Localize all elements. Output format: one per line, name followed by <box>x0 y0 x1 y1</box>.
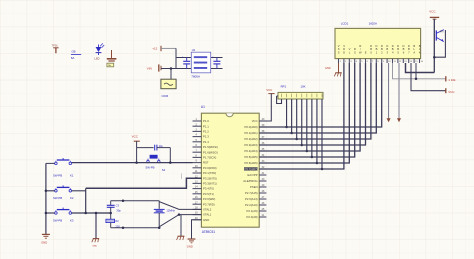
svg-text:P0.2(AD2): P0.2(AD2) <box>245 137 258 141</box>
junction crystal bottom b <box>158 226 161 229</box>
svg-text:PN: PN <box>440 31 444 34</box>
svg-text:P2.1(A9): P2.1(A9) <box>247 209 258 213</box>
junction rail K3 <box>45 212 48 215</box>
junction crystal bottom a <box>122 226 125 229</box>
test point TP1 <box>52 44 59 54</box>
svg-text:10K: 10K <box>300 85 305 89</box>
pin 11 U1 <box>193 170 217 175</box>
switch K3 <box>53 208 74 223</box>
wire to fuse box <box>170 69 172 80</box>
svg-text:LED: LED <box>95 56 100 60</box>
pin 16 U1 <box>193 196 216 201</box>
junction RST right <box>169 161 172 164</box>
wire RP1 pin5 to P0.3 <box>301 99 303 145</box>
svg-text:P3.0(RXD): P3.0(RXD) <box>203 166 217 170</box>
svg-text:VCC: VCC <box>266 88 272 92</box>
pin 31 U1 <box>247 172 266 177</box>
svg-text:GND: GND <box>187 245 193 249</box>
svg-text:VCC: VCC <box>429 9 436 13</box>
svg-text:P1.6(MISO): P1.6(MISO) <box>203 150 218 154</box>
svg-text:D: D <box>370 44 372 48</box>
svg-text:EA/VPP: EA/VPP <box>247 173 257 177</box>
pin 2 U1 <box>193 123 210 128</box>
pin 10 U1 <box>193 165 217 170</box>
svg-text:XTAL2: XTAL2 <box>203 208 212 212</box>
pin 9 LCD1 <box>381 44 385 63</box>
svg-text:R2: R2 <box>115 219 119 223</box>
pin 4 U1 <box>193 134 210 139</box>
power port VCC reset <box>132 135 140 142</box>
svg-text:P0.7(AD7): P0.7(AD7) <box>245 167 258 171</box>
svg-text:U1: U1 <box>201 105 205 109</box>
LCD module LCD1 body <box>335 22 421 59</box>
ground GND left rail <box>41 234 50 244</box>
wire P0.0 bus <box>259 63 381 127</box>
wire P0.7 bus <box>259 63 344 169</box>
svg-text:P0.3(AD3): P0.3(AD3) <box>245 143 258 147</box>
svg-text:P1.1: P1.1 <box>203 124 209 128</box>
switch S4 <box>145 155 165 172</box>
wire RP1 pin7 to P0.5 <box>311 99 313 157</box>
svg-text:VIN: VIN <box>147 66 152 70</box>
wire pin15 to VL net <box>415 63 417 79</box>
wire backlight elbow <box>406 63 435 73</box>
svg-text:C3: C3 <box>116 203 120 207</box>
crystal Y1 <box>154 201 176 228</box>
ground claw mid <box>92 239 99 248</box>
wire GND branch <box>96 212 111 214</box>
wire left rail <box>45 163 47 234</box>
capacitor C8 with plus <box>212 55 220 68</box>
svg-text:E: E <box>365 51 367 55</box>
svg-text:P0.4(AD4): P0.4(AD4) <box>245 149 258 153</box>
wire emitter loop <box>434 30 445 57</box>
pin 9 U1 <box>193 160 209 165</box>
svg-text:P1.7(SCK): P1.7(SCK) <box>203 156 216 160</box>
wire crystal bottom <box>111 227 160 229</box>
wire RST net <box>72 162 193 164</box>
pin 17 U1 <box>193 201 215 206</box>
op-amp U1 body <box>201 105 259 234</box>
wire XTAL2 diag <box>159 202 201 210</box>
pin 11 LCD1 <box>392 44 397 63</box>
svg-text:1602A: 1602A <box>369 22 377 26</box>
svg-text:P1.2: P1.2 <box>203 130 209 134</box>
wire upper rail <box>176 57 223 59</box>
wire VCC drop <box>136 148 138 163</box>
wire crystal gnd drop <box>180 215 182 236</box>
svg-text:12MHz: 12MHz <box>166 208 175 212</box>
wire XTAL1 diag <box>159 215 201 227</box>
svg-text:D: D <box>376 44 378 48</box>
junction emitter <box>433 56 436 59</box>
svg-text:LCD1: LCD1 <box>341 22 349 26</box>
svg-text:GND: GND <box>92 245 97 247</box>
resistor R2 <box>106 219 120 228</box>
svg-text:P3.3(INT1): P3.3(INT1) <box>203 182 217 186</box>
wire RP1 pin9 to P0.7 <box>321 99 323 169</box>
pin 12 U1 <box>193 175 217 180</box>
svg-text:P3.7(RD): P3.7(RD) <box>203 202 215 206</box>
wire RP1 pin8 to P0.6 <box>316 99 318 163</box>
pin 34 U1 <box>245 154 267 159</box>
junction XTAL <box>178 213 181 216</box>
wire +12 down <box>175 48 177 68</box>
ground claw crystal <box>177 236 185 240</box>
svg-text:K1: K1 <box>70 174 74 178</box>
junction GND branch <box>95 212 98 215</box>
no-connect stub <box>181 174 183 180</box>
resistor network RP1 <box>278 85 323 99</box>
svg-text:PSEN: PSEN <box>250 185 258 189</box>
regulator U2 7805 <box>191 48 210 79</box>
pin 7 U1 <box>193 149 218 154</box>
pin 5 U1 <box>193 139 210 144</box>
ground arrow pin12 <box>397 118 401 122</box>
svg-text:D: D <box>381 44 383 48</box>
svg-text:P1.5(MOSI): P1.5(MOSI) <box>203 145 218 149</box>
pin 16 LCD1 <box>419 44 424 63</box>
power port VIN <box>147 64 161 71</box>
wire RP1 pin6 to P0.4 <box>306 99 308 151</box>
pin 38 U1 <box>245 130 267 135</box>
svg-text:AT89C51: AT89C51 <box>202 230 215 234</box>
svg-text:P1.0: P1.0 <box>203 119 209 123</box>
pin 36 U1 <box>245 142 267 147</box>
junction P0.2 <box>295 138 298 141</box>
svg-text:VCC: VCC <box>132 135 139 139</box>
svg-text:C006: C006 <box>162 94 169 98</box>
wire K2 left <box>46 190 55 192</box>
svg-text:P2.2(A10): P2.2(A10) <box>245 203 258 207</box>
pin 10 LCD1 <box>386 44 391 63</box>
capacitor C4 <box>155 145 164 151</box>
wire reset top <box>137 147 154 149</box>
wire net BLK <box>411 63 446 91</box>
pin 1 U1 <box>193 118 210 123</box>
svg-text:GND: GND <box>325 67 331 70</box>
svg-text:V: V <box>343 44 345 48</box>
power port VCC <box>266 88 274 93</box>
wire collector down <box>433 19 435 73</box>
pin 29 U1 <box>250 184 266 189</box>
junction rail K2 <box>45 190 48 193</box>
wire VIN rail <box>161 68 223 70</box>
pin 33 U1 <box>245 160 267 165</box>
svg-text:VCC: VCC <box>448 90 455 94</box>
capacitor C7 with plus <box>182 55 191 68</box>
wire K2 riser <box>85 188 87 213</box>
wire GND pin20 <box>192 220 202 239</box>
junction P0.4 <box>306 150 309 153</box>
wire P0.4 bus <box>259 63 360 151</box>
capacitor C3 <box>107 201 121 220</box>
pin 28 U1 <box>245 190 266 195</box>
pin 15 U1 <box>193 191 214 196</box>
junction RC <box>109 212 112 215</box>
svg-text:K3: K3 <box>70 218 74 222</box>
wire VCC to pin40 <box>259 94 271 121</box>
wire LCD pin10 stub <box>388 63 390 118</box>
svg-text:P3.6(WR): P3.6(WR) <box>203 197 215 201</box>
pin 7 LCD1 <box>370 44 374 63</box>
svg-text:RP1: RP1 <box>281 85 287 89</box>
pin 1 LCD1 <box>338 44 342 63</box>
LED D1 <box>95 43 105 60</box>
wire K2 right <box>72 190 86 192</box>
wire RP1 common hook <box>281 98 283 100</box>
svg-text:P2.0(A8): P2.0(A8) <box>247 215 258 219</box>
battery GB label <box>71 50 81 60</box>
pin 30 U1 <box>243 178 266 183</box>
pin 14 LCD1 <box>408 44 413 63</box>
wire crystal top <box>111 200 160 202</box>
svg-text:GB: GB <box>72 50 76 54</box>
svg-text:P0.1(AD1): P0.1(AD1) <box>245 131 258 135</box>
svg-text:P3.4(T0): P3.4(T0) <box>203 187 214 191</box>
wire reset top right <box>157 147 170 149</box>
pin 8 LCD1 <box>376 44 380 63</box>
ground with fuse box <box>107 50 117 67</box>
svg-text:S4: S4 <box>162 168 166 172</box>
svg-text:P3.2(INT0): P3.2(INT0) <box>203 176 217 180</box>
svg-text:D: D <box>397 44 399 48</box>
pin 21 U1 <box>247 214 267 219</box>
pin 6 U1 <box>193 144 218 149</box>
ground claw LCD VSS <box>325 63 342 76</box>
pin 25 U1 <box>247 208 267 213</box>
pin 12 LCD1 <box>397 44 402 63</box>
svg-text:SW-PB: SW-PB <box>53 218 62 222</box>
power port VCC top <box>429 9 439 19</box>
wire P0.1 bus <box>259 63 376 133</box>
svg-text:SW-PB: SW-PB <box>145 165 154 169</box>
svg-text:D: D <box>403 44 405 48</box>
junction crystal top <box>122 199 125 202</box>
pin 8 U1 <box>193 155 217 160</box>
pin 6 LCD1 <box>365 51 369 64</box>
pin 4 LCD1 <box>354 47 358 63</box>
svg-text:XTAL1: XTAL1 <box>203 213 212 217</box>
wire P0.5 bus <box>259 63 354 157</box>
svg-text:V: V <box>338 44 340 48</box>
wire K3 left <box>46 212 55 214</box>
net port VCC right <box>446 88 456 94</box>
svg-text:K2: K2 <box>70 196 74 200</box>
svg-text:GND: GND <box>203 218 209 222</box>
junction P0.6 <box>316 162 319 165</box>
svg-text:P0.6(AD6): P0.6(AD6) <box>245 161 258 165</box>
pin 15 LCD1 <box>413 44 418 63</box>
svg-text:B: B <box>413 44 415 48</box>
power port +12 <box>152 46 161 51</box>
svg-text:+: + <box>212 55 214 59</box>
pin 14 U1 <box>193 186 214 191</box>
junction P0.7 <box>321 168 324 171</box>
pin 2 LCD1 <box>343 44 347 63</box>
junction P0.3 <box>300 144 303 147</box>
pin 39 U1 <box>245 124 267 129</box>
wire +12 rail <box>161 47 176 49</box>
svg-text:P2.6(A14): P2.6(A14) <box>245 197 258 201</box>
svg-text:P3.5(T1): P3.5(T1) <box>203 192 214 196</box>
wire net VL gray <box>393 63 446 79</box>
svg-text:V: V <box>349 47 351 51</box>
svg-text:8A: 8A <box>71 56 75 60</box>
svg-text:B: B <box>419 44 421 48</box>
junction fuse tap <box>170 67 173 70</box>
svg-text:7805A: 7805A <box>191 74 200 78</box>
svg-text:P2.7(A15): P2.7(A15) <box>245 191 258 195</box>
svg-text:D: D <box>386 44 388 48</box>
svg-text:P1.4: P1.4 <box>203 140 209 144</box>
pin 32 U1 <box>244 166 266 171</box>
junction K3 riser <box>84 212 87 215</box>
svg-text:P0.5(AD5): P0.5(AD5) <box>245 155 258 159</box>
pin 5 LCD1 <box>359 44 363 63</box>
transistor Q1 <box>436 30 444 42</box>
ground GND U1 <box>187 239 196 249</box>
junction RST left <box>135 161 138 164</box>
pin 26 U1 <box>245 202 266 207</box>
svg-text:RST: RST <box>203 161 209 165</box>
svg-text:+: + <box>182 55 184 59</box>
ground arrow pin10 <box>387 118 391 122</box>
wire K1 left <box>46 162 55 164</box>
pin 40 U1 <box>252 118 267 123</box>
wire P0.3 bus <box>259 63 365 145</box>
pin 19 U1 <box>193 212 212 217</box>
junction P0.1 <box>290 132 293 135</box>
wire RP1 pin3 to P0.1 <box>291 99 293 133</box>
wire LCD pin12 stub <box>398 63 400 118</box>
fuse F1 box C006 <box>161 79 176 98</box>
pin 20 U1 <box>193 217 210 222</box>
svg-text:30p: 30p <box>116 208 121 212</box>
svg-text:TP01: TP01 <box>52 44 59 48</box>
wire K3 right <box>72 212 111 214</box>
wire cap down <box>169 148 171 163</box>
pin 35 U1 <box>245 148 267 153</box>
svg-text:SW-PB: SW-PB <box>53 174 62 178</box>
wire P3.3 net thick <box>86 178 202 188</box>
pin 13 U1 <box>193 181 217 186</box>
pin 3 U1 <box>193 129 210 134</box>
junction P0.5 <box>311 156 314 159</box>
wire VCC to cap <box>136 141 138 147</box>
pin 18 U1 <box>193 207 212 212</box>
svg-text:+12: +12 <box>152 47 157 51</box>
svg-text:1 10k: 1 10k <box>448 78 456 82</box>
svg-text:D: D <box>392 44 394 48</box>
svg-text:R: R <box>354 47 356 51</box>
wire P0.6 bus <box>259 63 349 163</box>
junction VL <box>415 78 418 81</box>
svg-text:P3.1(TXD): P3.1(TXD) <box>203 171 216 175</box>
wire RP1 pin4 to P0.2 <box>296 99 298 139</box>
pin 37 U1 <box>245 136 267 141</box>
svg-text:D: D <box>408 44 410 48</box>
svg-text:ALE/PROG: ALE/PROG <box>243 179 257 183</box>
wire RP1 pin2 to P0.0 <box>286 99 288 127</box>
wire P0.2 bus <box>259 63 371 139</box>
svg-text:R: R <box>359 44 361 48</box>
svg-text:VCC: VCC <box>252 119 258 123</box>
switch K1 <box>53 158 74 178</box>
svg-text:U2: U2 <box>192 48 196 52</box>
junction P0.0 <box>285 126 288 129</box>
svg-text:GND: GND <box>41 241 47 245</box>
pin 3 LCD1 <box>349 47 353 63</box>
pin 13 LCD1 <box>403 44 408 63</box>
pin 27 U1 <box>245 196 266 201</box>
switch K2 <box>53 185 74 199</box>
svg-text:P0.0(AD0): P0.0(AD0) <box>245 125 258 129</box>
svg-text:SW-PB: SW-PB <box>53 196 62 200</box>
svg-text:P1.3: P1.3 <box>203 135 209 139</box>
net port 10k <box>446 76 456 82</box>
